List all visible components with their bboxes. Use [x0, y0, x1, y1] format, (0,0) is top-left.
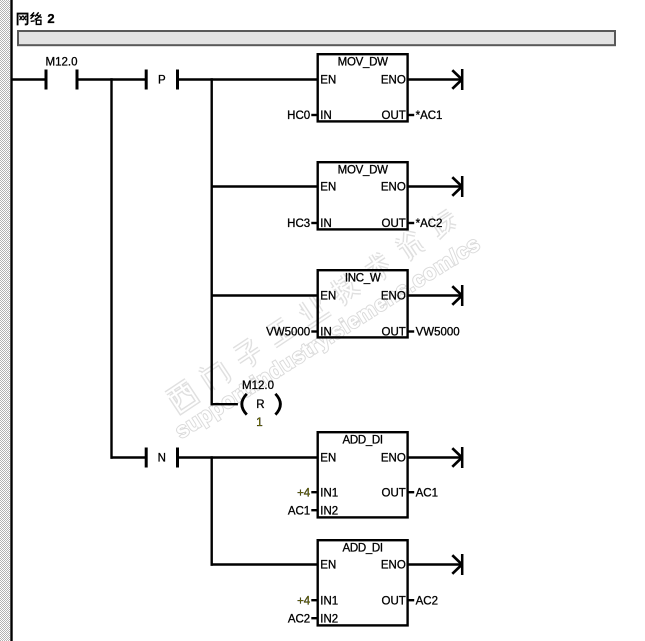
- wire: rung1 from rail to contact M12.0: [11, 78, 45, 80]
- open branch arrow rung2: [452, 176, 462, 197]
- function block ADD_DI B5: [288, 540, 438, 625]
- B1 output stub wire for OUT: [408, 114, 414, 116]
- wire: B4 ENO to open branch arrow: [408, 456, 461, 458]
- wire: branch to reset coil: [211, 403, 238, 405]
- watermark glyph 6: [361, 250, 394, 284]
- svg-text:*AC2: *AC2: [416, 218, 443, 230]
- svg-text:IN: IN: [320, 218, 332, 230]
- contact N (negative edge): [145, 448, 148, 468]
- watermark: diagonal gray text 西门子工业技术论坛: [165, 205, 461, 413]
- svg-text:AC2: AC2: [288, 613, 310, 625]
- left margin hatch strip: [0, 0, 10, 641]
- svg-text:IN1: IN1: [320, 487, 338, 499]
- power rail (left bus bar): [10, 0, 12, 641]
- svg-text:IN2: IN2: [320, 613, 338, 625]
- watermark glyph 3: [265, 317, 296, 346]
- svg-text:IN: IN: [320, 110, 332, 122]
- B4 input stub wire for IN2: [311, 509, 317, 511]
- svg-text:AC1: AC1: [416, 487, 438, 499]
- wire: B1 ENO to open branch arrow: [408, 78, 461, 80]
- svg-text:EN: EN: [320, 182, 336, 194]
- function block ADD_DI B4: [288, 432, 438, 517]
- svg-text:ENO: ENO: [381, 560, 406, 572]
- open branch arrow rung4: [452, 447, 462, 468]
- open branch arrow rung5: [452, 554, 462, 575]
- svg-text:M12.0: M12.0: [242, 380, 274, 392]
- B3 output stub wire for OUT: [408, 330, 414, 332]
- svg-text:VW5000: VW5000: [266, 327, 310, 339]
- svg-text:R: R: [256, 399, 264, 411]
- svg-text:+4: +4: [297, 595, 311, 607]
- svg-text:EN: EN: [320, 560, 336, 572]
- svg-text:AC2: AC2: [416, 595, 438, 607]
- svg-text:N: N: [158, 453, 166, 465]
- B2 output stub wire for OUT: [408, 222, 414, 224]
- open branch arrow rung1: [452, 69, 462, 90]
- junction node J2: vertical wire down to reset coil branch: [210, 78, 212, 405]
- wire: rung4 contact N to block B4 EN (through node J3): [177, 456, 319, 458]
- svg-text:2: 2: [47, 11, 54, 26]
- network title bold text: 网络 2: [18, 13, 41, 25]
- open branch arrow rung3: [452, 285, 462, 306]
- watermark glyph 7: [393, 229, 425, 262]
- svg-text:VW5000: VW5000: [416, 327, 460, 339]
- svg-text:ADD_DI: ADD_DI: [342, 435, 382, 447]
- watermark glyph 8: [426, 206, 459, 238]
- network comment gray bar: [18, 31, 615, 45]
- B5 input stub wire for IN2: [311, 617, 317, 619]
- wire: rung1 contact P to block B1 EN (through node J2): [177, 78, 319, 80]
- svg-text:OUT: OUT: [382, 327, 406, 339]
- wire: branch to rung3 block B3 EN: [211, 294, 319, 296]
- watermark glyph 5: [328, 271, 362, 306]
- junction node J1: vertical wire down to N rung: [110, 78, 112, 458]
- svg-text:IN1: IN1: [320, 595, 338, 607]
- watermark glyph 2: [232, 338, 265, 370]
- svg-text:OUT: OUT: [382, 487, 406, 499]
- wire: B5 ENO to open branch arrow: [408, 563, 461, 565]
- svg-text:OUT: OUT: [382, 110, 406, 122]
- svg-text:IN2: IN2: [320, 505, 338, 517]
- watermark glyph 0: [166, 380, 199, 413]
- B1 input stub wire for IN: [311, 114, 317, 116]
- svg-text:EN: EN: [320, 291, 336, 303]
- svg-text:M12.0: M12.0: [46, 56, 78, 68]
- svg-text:EN: EN: [320, 453, 336, 465]
- watermark glyph 4: [295, 292, 330, 327]
- coil R (reset) for M12.0: [242, 394, 247, 415]
- wire: rung1 contact M12.0 to contact P (through node J1): [77, 78, 146, 80]
- svg-text:OUT: OUT: [382, 218, 406, 230]
- svg-text:P: P: [158, 75, 166, 87]
- svg-text:ENO: ENO: [381, 453, 406, 465]
- wire: rung4 from J1 to contact N: [111, 456, 146, 458]
- B2 input stub wire for IN: [311, 222, 317, 224]
- svg-text:ADD_DI: ADD_DI: [342, 543, 382, 555]
- svg-text:MOV_DW: MOV_DW: [338, 57, 388, 69]
- svg-text:*AC1: *AC1: [416, 110, 443, 122]
- wire: branch to rung2 block B2 EN: [211, 185, 319, 187]
- svg-text:ENO: ENO: [381, 291, 406, 303]
- svg-text:ENO: ENO: [381, 182, 406, 194]
- B4 output stub wire for OUT: [408, 491, 414, 493]
- contact P (positive edge): [145, 70, 148, 90]
- watermark glyph 1: [199, 358, 230, 391]
- contact M12.0 (normally open): [45, 70, 48, 90]
- function block MOV_DW B2: [287, 162, 442, 230]
- svg-text:HC0: HC0: [287, 110, 310, 122]
- function block INC_W B3: [266, 270, 460, 339]
- B3 input stub wire for IN: [311, 330, 317, 332]
- svg-text:1: 1: [256, 417, 262, 429]
- B5 input stub wire for IN1: [311, 599, 317, 601]
- wire: B2 ENO to open branch arrow: [408, 185, 461, 187]
- svg-text:ENO: ENO: [381, 75, 406, 87]
- svg-text:AC1: AC1: [288, 505, 310, 517]
- svg-text:HC3: HC3: [287, 218, 310, 230]
- svg-text:OUT: OUT: [382, 595, 406, 607]
- svg-text:INC_W: INC_W: [345, 273, 381, 285]
- B4 input stub wire for IN1: [311, 491, 317, 493]
- function block MOV_DW B1: [287, 54, 442, 122]
- svg-text:+4: +4: [297, 487, 311, 499]
- svg-text:MOV_DW: MOV_DW: [338, 165, 388, 177]
- wire: B3 ENO to open branch arrow: [408, 294, 461, 296]
- svg-text:EN: EN: [320, 75, 336, 87]
- wire: branch to rung5 block B5 EN: [211, 563, 319, 565]
- svg-text:IN: IN: [320, 327, 332, 339]
- B5 output stub wire for OUT: [408, 599, 414, 601]
- watermark url line: [171, 231, 485, 443]
- junction node J3: vertical wire down to rung5: [210, 456, 212, 565]
